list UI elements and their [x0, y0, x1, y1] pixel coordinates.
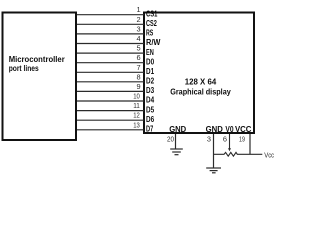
potentiometer R1 rail + zigzag — [214, 152, 263, 156]
wire pin12 — [77, 119, 144, 121]
wire pin1 — [77, 14, 144, 16]
wire pin8 — [77, 81, 144, 83]
svg-text:5: 5 — [136, 44, 140, 53]
wiper arrowhead — [228, 148, 231, 151]
svg-text:R/W: R/W — [146, 38, 161, 47]
wire pin10 — [77, 100, 144, 102]
wire pin4 — [77, 43, 144, 45]
svg-text:D4: D4 — [146, 96, 155, 105]
svg-text:D3: D3 — [146, 86, 155, 95]
microcontroller box U1 — [3, 13, 77, 141]
svg-text:D0: D0 — [146, 57, 155, 66]
svg-text:D7: D7 — [146, 125, 154, 134]
svg-text:D5: D5 — [146, 105, 155, 114]
wire GND pin3 drop — [213, 134, 215, 168]
wire pin13 — [77, 129, 144, 131]
svg-text:EN: EN — [146, 48, 154, 57]
svg-text:8: 8 — [136, 72, 140, 81]
svg-text:12: 12 — [133, 111, 140, 120]
wire pin6 — [77, 62, 144, 64]
wire pin11 — [77, 110, 144, 112]
wire pin7 — [77, 71, 144, 73]
svg-text:9: 9 — [136, 82, 140, 91]
svg-text:10: 10 — [133, 92, 140, 101]
svg-text:CS1: CS1 — [146, 9, 158, 18]
svg-text:V0: V0 — [225, 125, 234, 134]
svg-text:19: 19 — [239, 134, 245, 143]
svg-text:D2: D2 — [146, 77, 155, 86]
svg-text:3: 3 — [207, 134, 211, 143]
svg-text:D6: D6 — [146, 115, 155, 124]
svg-text:2: 2 — [136, 15, 140, 24]
svg-text:Vcc: Vcc — [264, 150, 274, 159]
wire V0 wiper drop — [229, 134, 231, 149]
ground symbol (pin 20) — [170, 149, 183, 155]
svg-text:13: 13 — [133, 120, 140, 129]
svg-text:3: 3 — [136, 24, 140, 33]
svg-text:Microcontroller: Microcontroller — [9, 55, 65, 64]
svg-text:Graphical display: Graphical display — [170, 88, 231, 97]
wire pin9 — [77, 90, 144, 92]
graphical display box U2 — [144, 13, 254, 134]
svg-text:11: 11 — [133, 101, 140, 110]
svg-text:1: 1 — [136, 5, 140, 14]
svg-text:GND: GND — [206, 125, 223, 134]
wire GND pin20 drop — [175, 134, 177, 149]
svg-text:128 X 64: 128 X 64 — [185, 78, 217, 87]
wire pin5 — [77, 52, 144, 54]
svg-text:RS: RS — [146, 29, 154, 38]
wire pin2 — [77, 23, 144, 25]
svg-text:D1: D1 — [146, 67, 155, 76]
svg-text:20: 20 — [167, 134, 174, 143]
svg-text:VCC: VCC — [235, 125, 252, 134]
svg-text:7: 7 — [136, 63, 140, 72]
svg-text:6: 6 — [136, 53, 140, 62]
svg-text:port lines: port lines — [9, 64, 39, 73]
ground symbol (pin 3) — [206, 168, 221, 173]
svg-text:4: 4 — [136, 34, 140, 43]
svg-text:6: 6 — [223, 134, 227, 143]
wire pin3 — [77, 33, 144, 35]
wire VCC pin19 drop — [249, 134, 251, 154]
svg-text:GND: GND — [169, 125, 186, 134]
svg-text:CS2: CS2 — [146, 19, 157, 28]
